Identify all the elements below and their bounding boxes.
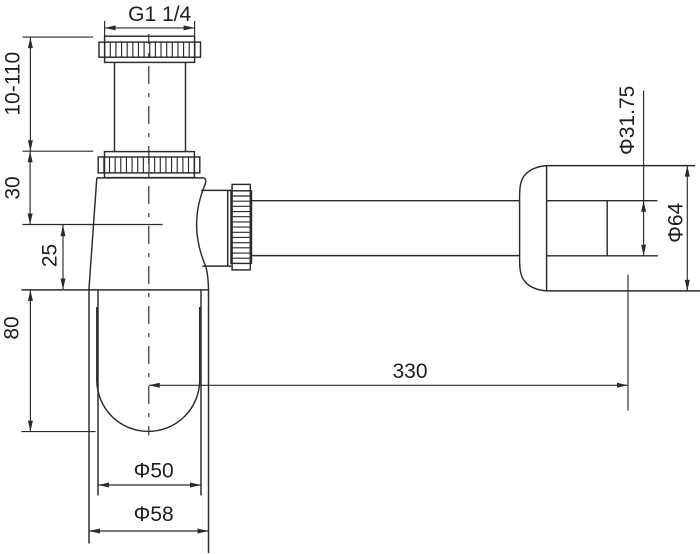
inlet pipe between nuts <box>115 62 186 151</box>
svg-text:G1 1/4: G1 1/4 <box>128 3 191 26</box>
svg-text:Φ50: Φ50 <box>134 459 174 482</box>
pipe inside flange <box>547 201 658 256</box>
dimension D31.75 <box>616 86 646 256</box>
vertical centerline (dashed) <box>148 34 150 436</box>
svg-text:25: 25 <box>39 244 62 267</box>
svg-text:330: 330 <box>392 360 427 383</box>
dimension D64 <box>665 166 690 291</box>
cup outer wall left <box>88 290 90 544</box>
dimension 80 <box>1 290 96 432</box>
dimension 330 <box>149 275 628 411</box>
svg-text:80: 80 <box>1 316 24 339</box>
top slip nut (knurled) <box>99 36 201 62</box>
cup inner wall left <box>97 290 99 496</box>
dimension D50 <box>98 459 201 487</box>
wall flange body edges <box>547 166 700 291</box>
cup inner wall right <box>200 290 202 496</box>
svg-text:Φ31.75: Φ31.75 <box>616 86 639 155</box>
dimension 10-110 <box>2 37 94 151</box>
inner dome tube <box>97 307 200 431</box>
svg-text:Φ64: Φ64 <box>665 202 688 242</box>
dimension 30 <box>2 151 94 224</box>
svg-text:10-110: 10-110 <box>2 52 25 116</box>
cup top joint line <box>21 289 208 291</box>
wall flange rounded cap <box>520 166 547 291</box>
dimension D58 <box>89 503 209 533</box>
horizontal outlet pipe <box>250 201 519 256</box>
svg-text:Φ58: Φ58 <box>134 503 174 526</box>
outlet knurled ring nut <box>231 184 252 270</box>
trap body (tapered) <box>89 178 209 290</box>
cup outer wall right <box>208 290 210 553</box>
dimension label G1 1/4 <box>105 3 195 36</box>
svg-text:30: 30 <box>2 176 25 199</box>
dimension 25 <box>22 225 162 290</box>
lower slip nut (knurled) <box>98 152 200 178</box>
outlet socket <box>201 190 232 266</box>
